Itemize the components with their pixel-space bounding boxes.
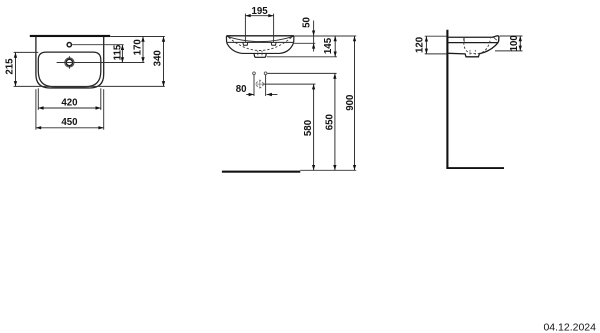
svg-text:170: 170 — [133, 39, 144, 55]
svg-text:215: 215 — [4, 58, 15, 75]
svg-text:340: 340 — [153, 50, 164, 66]
svg-text:580: 580 — [303, 120, 314, 136]
svg-text:115: 115 — [112, 44, 123, 60]
svg-text:420: 420 — [61, 97, 77, 108]
svg-text:900: 900 — [345, 95, 356, 111]
svg-text:50: 50 — [302, 17, 313, 28]
svg-text:195: 195 — [252, 6, 269, 17]
svg-text:450: 450 — [61, 117, 77, 128]
svg-text:650: 650 — [324, 114, 335, 130]
svg-text:04.12.2024: 04.12.2024 — [543, 322, 596, 333]
svg-text:100: 100 — [509, 35, 520, 51]
svg-text:120: 120 — [414, 37, 425, 53]
svg-text:145: 145 — [323, 37, 334, 54]
svg-text:80: 80 — [236, 84, 247, 95]
